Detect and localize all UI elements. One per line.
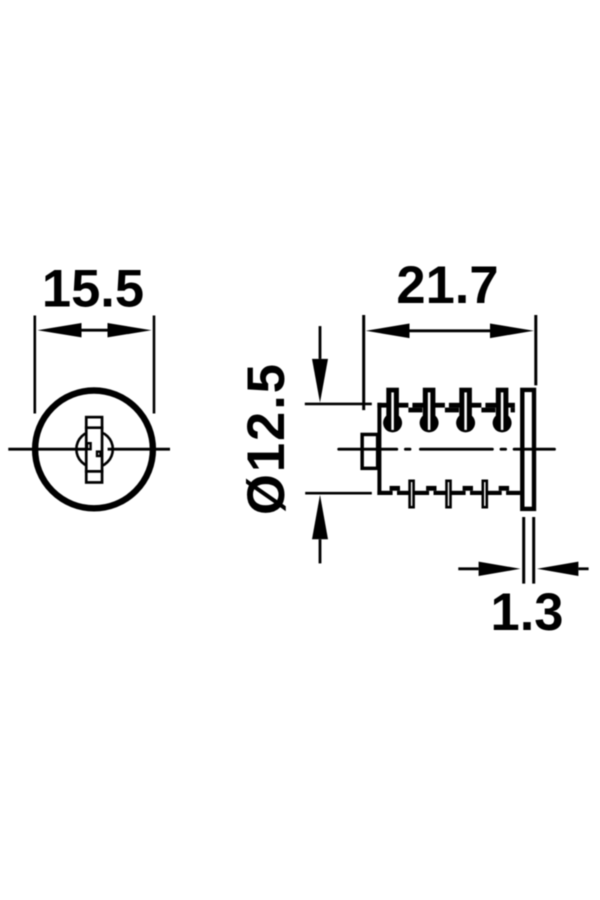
svg-text:21.7: 21.7: [396, 256, 498, 315]
svg-text:1.3: 1.3: [491, 583, 564, 642]
svg-text:15.5: 15.5: [42, 259, 144, 318]
svg-text:Ø12.5: Ø12.5: [237, 362, 296, 515]
